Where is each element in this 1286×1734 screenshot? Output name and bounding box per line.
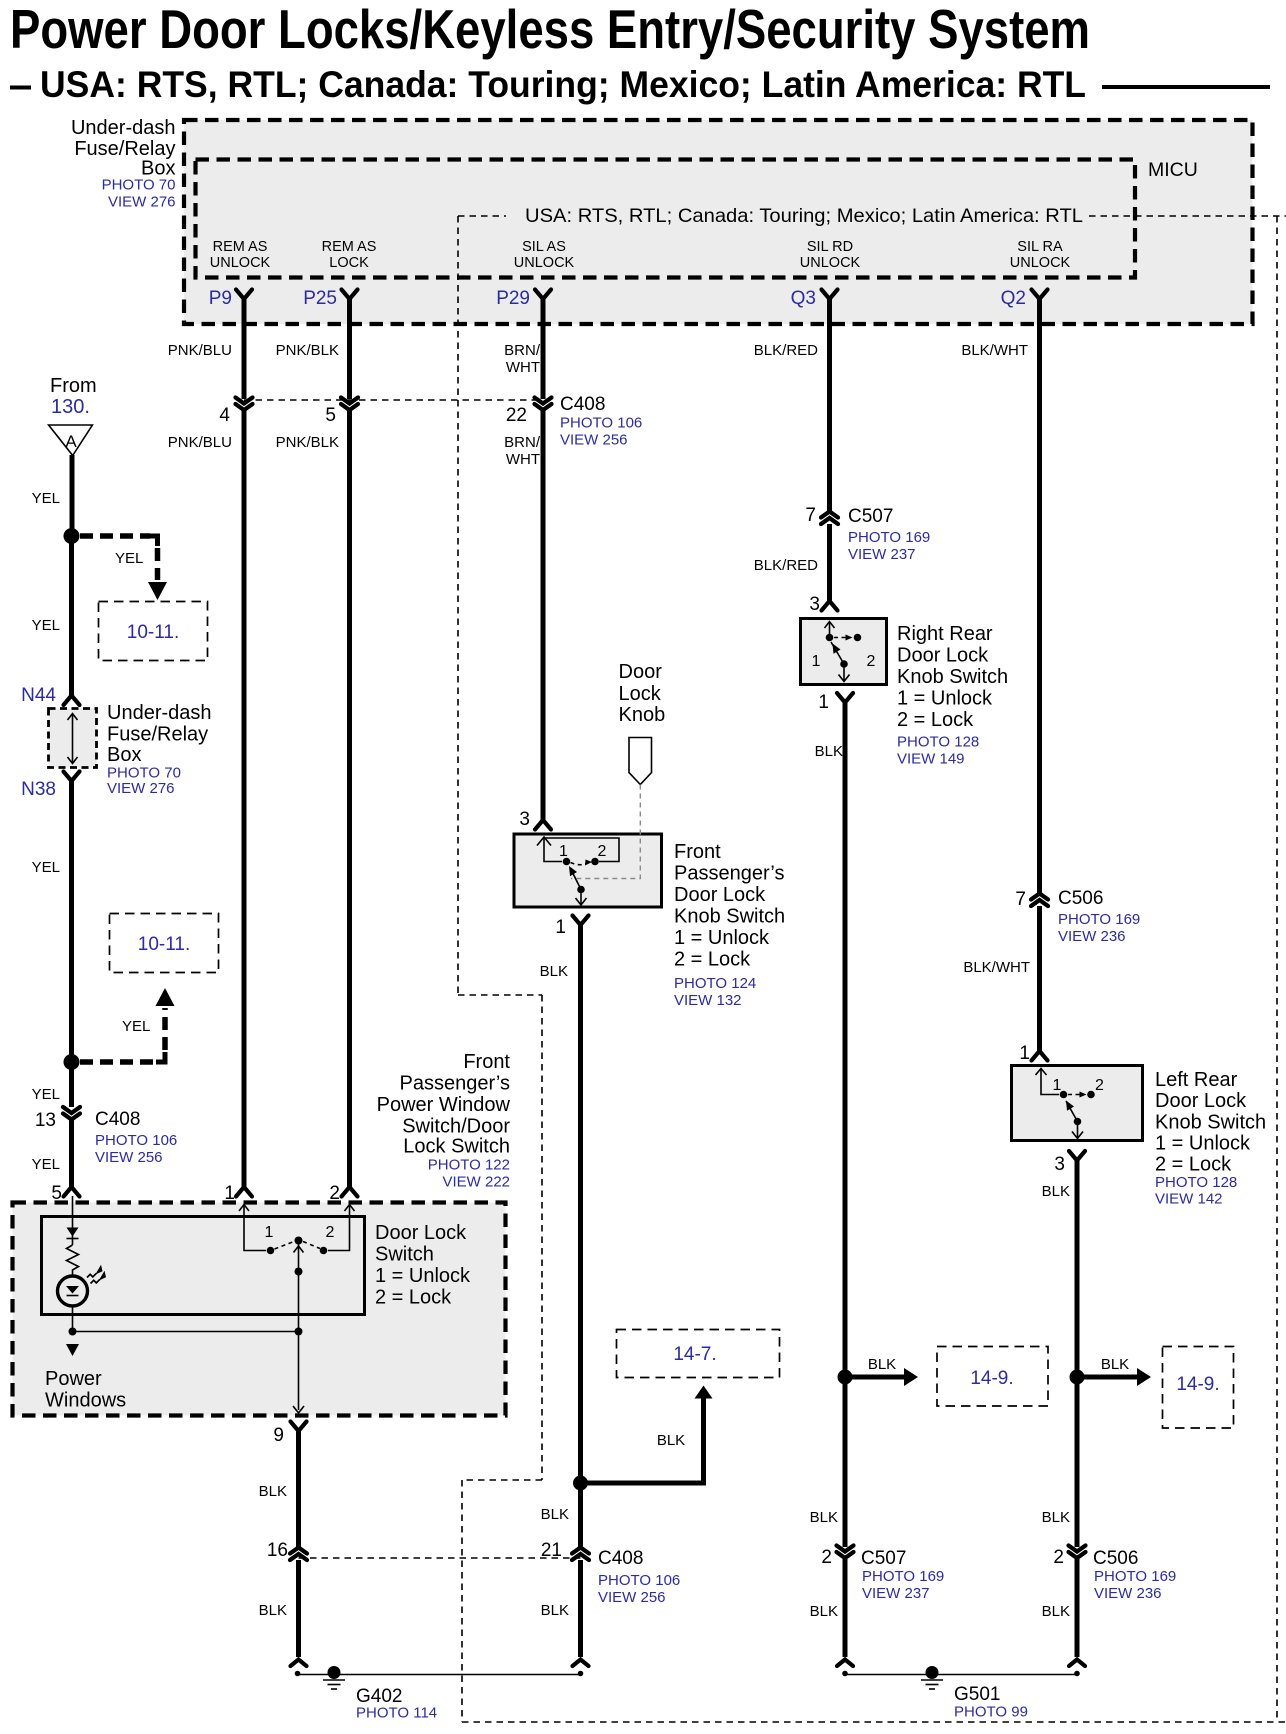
svg-text:C506: C506 [1093, 1548, 1138, 1569]
bus wire to switch common [73, 1331, 299, 1333]
svg-text:Left Rear: Left Rear [1155, 1069, 1238, 1091]
svg-text:YEL: YEL [32, 859, 60, 876]
svg-text:Passenger’s: Passenger’s [674, 863, 784, 885]
svg-text:VIEW 142: VIEW 142 [1155, 1191, 1223, 1208]
connector C408 label [560, 394, 642, 449]
ref box 14-9 (2) [1163, 1347, 1234, 1429]
svg-text:Knob Switch: Knob Switch [897, 666, 1008, 688]
svg-text:SIL RA: SIL RA [1017, 239, 1063, 255]
svg-text:BLK: BLK [657, 1432, 685, 1449]
wire to 14-9 ref 2 [1077, 1375, 1137, 1380]
pin name REM AS LOCK [322, 239, 377, 271]
G402 label [356, 1686, 437, 1722]
arrow to 14-9 ref 2 [1137, 1368, 1151, 1386]
connector C507 pin 2 [821, 1546, 853, 1569]
front passenger door lock knob switch box [514, 834, 662, 907]
svg-text:4: 4 [219, 405, 230, 426]
subtitle [10, 64, 1270, 105]
junction dot switch common [295, 1328, 303, 1336]
door lock knob label [619, 661, 666, 726]
door lock switch contact 1 lead [239, 1204, 266, 1251]
svg-text:BRN/: BRN/ [504, 434, 541, 451]
svg-text:C507: C507 [861, 1548, 906, 1569]
svg-text:2: 2 [1095, 1077, 1104, 1094]
svg-text:LOCK: LOCK [329, 255, 369, 271]
ref box 14-9 (1) [937, 1347, 1048, 1407]
wire BLK C408 16 to G402 [296, 1560, 301, 1657]
junction YEL branch 2 [64, 1054, 80, 1070]
svg-text:VIEW 276: VIEW 276 [108, 194, 176, 211]
door lock switch label [375, 1222, 471, 1309]
svg-text:BLK: BLK [540, 963, 568, 980]
svg-text:UNLOCK: UNLOCK [210, 255, 271, 271]
fuse box label [107, 702, 212, 797]
svg-text:Windows: Windows [45, 1390, 126, 1412]
svg-text:PNK/BLK: PNK/BLK [276, 342, 339, 359]
wire BLK left rear to C506 2 [1075, 1377, 1080, 1547]
source triangle A [49, 425, 93, 456]
G501 wire end fork 2 [1069, 1660, 1085, 1667]
svg-text:BLK/RED: BLK/RED [754, 557, 818, 574]
G501 wire end fork 1 [837, 1660, 853, 1667]
svg-text:Right Rear: Right Rear [897, 623, 993, 645]
G402 wire end dot 2 [578, 1671, 584, 1677]
svg-text:VIEW 237: VIEW 237 [848, 546, 916, 563]
connector C506 pin 2 [1053, 1546, 1085, 1569]
connector C507 pin 7 [805, 505, 838, 526]
svg-text:PNK/BLU: PNK/BLU [168, 342, 232, 359]
svg-text:BLK: BLK [1042, 1509, 1070, 1526]
svg-text:1 = Unlock: 1 = Unlock [375, 1265, 471, 1287]
power windows label [45, 1368, 126, 1412]
power windows feed arrow [66, 1344, 79, 1356]
svg-text:VIEW 256: VIEW 256 [560, 432, 628, 449]
wire BLK right rear to C507 2 [843, 1377, 848, 1547]
wire C507 2 to G501 [843, 1558, 848, 1657]
svg-text:Q3: Q3 [791, 288, 816, 309]
switch common to pin 9 [293, 1272, 304, 1414]
wire Q3 lower (BLK/RED) [827, 524, 832, 602]
svg-text:Front: Front [674, 841, 721, 863]
connector C506 pin2 label [1093, 1548, 1176, 1602]
front passenger pin 3 fork [535, 820, 551, 830]
svg-text:BLK: BLK [815, 743, 843, 760]
svg-text:PHOTO 128: PHOTO 128 [1155, 1174, 1237, 1191]
power window / door lock switch assembly box [13, 1203, 506, 1416]
connector C408 pin 4 [219, 398, 252, 427]
wire BLK C408 21 to G402 [578, 1560, 583, 1657]
svg-text:Lock Switch: Lock Switch [403, 1136, 510, 1158]
svg-text:21: 21 [541, 1540, 562, 1561]
svg-text:UNLOCK: UNLOCK [514, 255, 575, 271]
ref box 10-11 (1) [99, 602, 208, 661]
svg-text:PHOTO 122: PHOTO 122 [428, 1157, 510, 1174]
pin P25 fork [342, 290, 358, 300]
svg-text:VIEW 222: VIEW 222 [442, 1174, 510, 1191]
left rear pin 3 fork [1069, 1151, 1085, 1161]
pin name SIL RD UNLOCK [800, 239, 861, 271]
svg-text:P25: P25 [303, 288, 337, 309]
under-dash fuse/relay box (outer) [184, 120, 1253, 324]
G402 ground symbol [323, 1666, 345, 1689]
svg-text:14-9.: 14-9. [1176, 1374, 1219, 1395]
svg-text:Door: Door [619, 661, 663, 683]
svg-text:2: 2 [1053, 1547, 1064, 1568]
wire BLK pin9 to C408 16 [296, 1430, 301, 1548]
G402 wire end dot [295, 1671, 301, 1677]
svg-text:1 = Unlock: 1 = Unlock [897, 688, 993, 710]
switch pin 2 fork [342, 1187, 358, 1197]
wire Q3 upper (BLK/RED) [827, 298, 832, 511]
pin P29 fork [535, 290, 551, 300]
svg-text:YEL: YEL [32, 1086, 60, 1103]
junction YEL branch 1 [64, 528, 80, 544]
pin Q3 fork [822, 290, 838, 300]
svg-text:PHOTO 106: PHOTO 106 [598, 1572, 680, 1589]
svg-text:N44: N44 [21, 685, 56, 706]
svg-text:P9: P9 [209, 288, 232, 309]
door lock knob linkage (dashed) [571, 785, 640, 879]
junction 14-9 branch 2 [1070, 1370, 1085, 1385]
door lock switch contact 2 lead [328, 1204, 355, 1251]
svg-text:VIEW 237: VIEW 237 [862, 1585, 930, 1602]
svg-text:Box: Box [107, 744, 141, 766]
svg-text:VIEW 236: VIEW 236 [1058, 928, 1126, 945]
wire P29 upper (BRN/WHT) [541, 298, 546, 399]
svg-text:SIL AS: SIL AS [522, 239, 566, 255]
switch pin 1 fork [236, 1187, 252, 1197]
svg-text:C506: C506 [1058, 888, 1103, 909]
svg-text:BLK: BLK [810, 1603, 838, 1620]
svg-text:1: 1 [265, 1224, 274, 1241]
svg-text:Door Lock: Door Lock [674, 884, 766, 906]
svg-text:2 = Lock: 2 = Lock [375, 1287, 452, 1309]
svg-text:PNK/BLK: PNK/BLK [276, 434, 339, 451]
wire P9 lower (PNK/BLU) [242, 410, 247, 1188]
G402 wire end fork 2 [573, 1660, 589, 1667]
connector C408 pin 22 [506, 398, 552, 427]
svg-text:C408: C408 [560, 394, 605, 415]
svg-text:USA: RTS, RTL; Canada: Touring: USA: RTS, RTL; Canada: Touring; Mexico; … [40, 64, 1086, 105]
svg-text:PHOTO 99: PHOTO 99 [954, 1704, 1028, 1721]
pin name SIL RA UNLOCK [1010, 239, 1071, 271]
svg-text:MICU: MICU [1148, 159, 1198, 181]
svg-text:1 = Unlock: 1 = Unlock [1155, 1133, 1251, 1155]
svg-text:PHOTO 169: PHOTO 169 [1058, 911, 1140, 928]
G402 ground rail [298, 1674, 581, 1676]
wire left rear to G501 (BLK) [1075, 1160, 1080, 1377]
dashed YEL branch wire 2 [80, 1059, 156, 1065]
junction 14-9 branch 1 [838, 1370, 853, 1385]
svg-text:Knob Switch: Knob Switch [1155, 1112, 1266, 1134]
svg-text:N38: N38 [21, 779, 56, 800]
wire YEL to N44 [69, 536, 74, 696]
pin N44 fork [64, 696, 80, 706]
connector C408 pin 16 [267, 1540, 307, 1561]
junction 14-7 branch [573, 1476, 588, 1491]
svg-text:VIEW 276: VIEW 276 [107, 780, 175, 797]
arrow to 14-9 ref 1 [904, 1368, 918, 1386]
wire Q2 upper (BLK/WHT) [1037, 298, 1042, 893]
svg-text:PHOTO 70: PHOTO 70 [102, 177, 176, 194]
connector C507 pin2 label [861, 1548, 944, 1602]
svg-text:Door Lock: Door Lock [375, 1222, 467, 1244]
wire YEL to switch pin 5 [69, 1119, 74, 1188]
door lock switch contacts [265, 1224, 335, 1254]
svg-text:Knob Switch: Knob Switch [674, 906, 785, 928]
connector C408 pin 21 [541, 1540, 589, 1561]
pin Q2 fork [1032, 290, 1048, 300]
under-dash fuse/relay box (fuse) [49, 709, 97, 768]
svg-text:2: 2 [867, 653, 876, 670]
right rear pin 1 fork [837, 693, 853, 703]
svg-text:VIEW 149: VIEW 149 [897, 751, 965, 768]
svg-text:YEL: YEL [122, 1018, 150, 1035]
svg-text:PHOTO 128: PHOTO 128 [897, 734, 979, 751]
svg-text:BLK: BLK [1042, 1603, 1070, 1620]
svg-text:PHOTO 169: PHOTO 169 [1094, 1568, 1176, 1585]
wire P29 lower (BRN/WHT) [541, 410, 546, 821]
pin name SIL AS UNLOCK [514, 239, 575, 271]
svg-text:WHT: WHT [506, 359, 540, 376]
svg-text:From: From [50, 375, 97, 397]
svg-text:BLK: BLK [259, 1602, 287, 1619]
wire YEL to junction 2 [69, 780, 74, 1060]
svg-text:G501: G501 [954, 1684, 1000, 1705]
svg-text:1: 1 [1019, 1043, 1030, 1064]
G501 wire end dot 1 [842, 1671, 848, 1677]
connector C408 pin 5 [325, 398, 358, 427]
svg-text:Passenger’s: Passenger’s [400, 1073, 510, 1095]
svg-text:Door Lock: Door Lock [1155, 1090, 1247, 1112]
wire BLK to C408 21 [578, 1483, 583, 1548]
switch pin 5 fork [64, 1187, 80, 1197]
door lock switch inner box [42, 1217, 365, 1315]
svg-text:2 = Lock: 2 = Lock [897, 709, 974, 731]
wire C506 2 to G501 [1075, 1558, 1080, 1657]
svg-text:YEL: YEL [115, 550, 143, 567]
svg-text:5: 5 [325, 405, 336, 426]
svg-text:A: A [65, 432, 77, 451]
svg-text:PHOTO 106: PHOTO 106 [560, 415, 642, 432]
door lock knob symbol [629, 738, 652, 785]
svg-text:YEL: YEL [32, 617, 60, 634]
G501 ground rail [845, 1674, 1077, 1676]
MICU box [196, 160, 1136, 278]
svg-text:WHT: WHT [506, 451, 540, 468]
G501 ground symbol [921, 1666, 943, 1689]
svg-text:PHOTO 70: PHOTO 70 [107, 765, 181, 782]
C408 16-21 interconnect dashed line [299, 1557, 581, 1559]
svg-text:UNLOCK: UNLOCK [1010, 255, 1071, 271]
LED to bus wire [72, 1306, 74, 1332]
svg-text:1: 1 [1053, 1077, 1062, 1094]
svg-text:UNLOCK: UNLOCK [800, 255, 861, 271]
svg-text:3: 3 [809, 594, 820, 615]
G501 wire end dot 2 [1074, 1671, 1080, 1677]
left rear door lock knob switch box [1012, 1066, 1143, 1141]
svg-text:REM AS: REM AS [322, 239, 377, 255]
dimmer resistor feed arrow [67, 1196, 79, 1245]
pin name REM AS UNLOCK [210, 239, 271, 271]
arrow to 10-11 ref 2 [156, 988, 175, 1006]
arrow to 10-11 ref 1 [148, 582, 167, 600]
left rear pin 1 fork [1032, 1051, 1048, 1061]
svg-text:VIEW 236: VIEW 236 [1094, 1585, 1162, 1602]
svg-text:7: 7 [1015, 889, 1026, 910]
switch pin 9 fork [291, 1422, 307, 1432]
svg-text:VIEW 256: VIEW 256 [95, 1149, 163, 1166]
svg-text:PHOTO 169: PHOTO 169 [848, 529, 930, 546]
ref box 14-7 [617, 1330, 780, 1378]
connector C506 label [1058, 888, 1140, 945]
arrow to 14-7 ref [695, 1386, 713, 1399]
svg-text:BLK: BLK [1042, 1183, 1070, 1200]
svg-text:9: 9 [273, 1425, 284, 1446]
svg-text:PHOTO 124: PHOTO 124 [674, 975, 756, 992]
svg-text:2: 2 [821, 1547, 832, 1568]
wire P9 upper (PNK/BLU) [242, 298, 247, 399]
svg-text:1 = Unlock: 1 = Unlock [674, 927, 770, 949]
svg-text:Front: Front [463, 1051, 510, 1073]
front passenger pin 1 fork [573, 916, 589, 926]
svg-text:BLK/WHT: BLK/WHT [961, 342, 1028, 359]
svg-text:Power: Power [45, 1368, 102, 1390]
illumination LED [58, 1265, 107, 1306]
svg-text:16: 16 [267, 1540, 288, 1561]
wire YEL to C408 pin 13 [69, 1062, 74, 1107]
svg-text:BRN/: BRN/ [504, 342, 541, 359]
svg-text:P29: P29 [496, 288, 530, 309]
connector C506 pin 7 [1015, 889, 1048, 910]
svg-text:Under-dash: Under-dash [71, 117, 176, 139]
svg-text:14-9.: 14-9. [970, 1368, 1013, 1389]
C408 interconnect dashed line [244, 399, 543, 401]
svg-text:YEL: YEL [32, 490, 60, 507]
svg-text:10-11.: 10-11. [138, 934, 190, 955]
svg-text:1: 1 [555, 917, 566, 938]
label BRN/WHT 2 [504, 434, 541, 468]
svg-text:7: 7 [805, 505, 816, 526]
svg-text:Switch: Switch [375, 1244, 434, 1266]
svg-text:BLK: BLK [868, 1356, 896, 1373]
svg-text:2 = Lock: 2 = Lock [674, 949, 751, 971]
svg-text:SIL RD: SIL RD [807, 239, 853, 255]
right rear pin 3 fork [822, 601, 838, 611]
svg-text:BLK: BLK [541, 1506, 569, 1523]
svg-text:VIEW 132: VIEW 132 [674, 992, 742, 1009]
svg-text:PHOTO 169: PHOTO 169 [862, 1568, 944, 1585]
front passenger door lock knob switch label [674, 841, 785, 1009]
pin N38 fork [64, 772, 80, 782]
right rear door lock knob switch box [801, 619, 887, 685]
dashed YEL branch wire 1 [80, 533, 150, 539]
G402 wire end fork [291, 1660, 307, 1667]
svg-text:BLK/RED: BLK/RED [754, 342, 818, 359]
svg-text:13: 13 [35, 1110, 56, 1131]
svg-text:2: 2 [598, 843, 607, 860]
svg-text:22: 22 [506, 405, 527, 426]
svg-text:C408: C408 [598, 1548, 643, 1569]
svg-text:3: 3 [1054, 1154, 1065, 1175]
wire to 14-9 ref 1 [845, 1375, 904, 1380]
svg-text:Power Window: Power Window [377, 1094, 511, 1116]
svg-text:BLK: BLK [810, 1509, 838, 1526]
svg-text:USA: RTS, RTL; Canada: Touring: USA: RTS, RTL; Canada: Touring; Mexico; … [525, 205, 1083, 227]
svg-text:Door Lock: Door Lock [897, 645, 989, 667]
connector C408 pin21 label [598, 1548, 680, 1606]
door lock switch lever [275, 1237, 321, 1276]
label BRN/WHT [504, 342, 541, 376]
svg-text:Fuse/Relay: Fuse/Relay [107, 724, 208, 746]
svg-text:Switch/Door: Switch/Door [402, 1116, 510, 1138]
svg-text:BLK: BLK [1101, 1356, 1129, 1373]
From 130 source [50, 375, 97, 418]
left rear door lock knob switch label [1155, 1069, 1266, 1208]
svg-text:PNK/BLU: PNK/BLU [168, 434, 232, 451]
svg-text:Knob: Knob [619, 704, 666, 726]
svg-text:1: 1 [818, 692, 829, 713]
wire P25 upper (PNK/BLK) [347, 298, 352, 399]
wire YEL from triangle [70, 455, 75, 533]
svg-text:C507: C507 [848, 506, 893, 527]
front passenger power window switch label [377, 1051, 511, 1191]
wire to 14-7 ref [581, 1398, 704, 1483]
svg-text:VIEW 256: VIEW 256 [598, 1589, 666, 1606]
svg-text:C408: C408 [95, 1109, 140, 1130]
wire front passenger to G402 (BLK) [578, 924, 583, 1483]
svg-text:3: 3 [519, 809, 530, 830]
svg-text:2: 2 [326, 1224, 335, 1241]
svg-text:PHOTO 114: PHOTO 114 [356, 1705, 437, 1722]
svg-text:2 = Lock: 2 = Lock [1155, 1154, 1232, 1176]
connector C408 pin13 label [95, 1109, 177, 1166]
svg-text:130.: 130. [51, 396, 90, 418]
option region boundary (dashed) [458, 216, 1286, 1722]
svg-text:BLK/WHT: BLK/WHT [963, 959, 1030, 976]
svg-text:Q2: Q2 [1001, 288, 1026, 309]
pin P9 fork [236, 290, 252, 300]
illumination resistor [67, 1245, 79, 1276]
under-dash fuse/relay box label [71, 117, 176, 211]
G501 label [954, 1684, 1028, 1721]
wire Q2 lower (BLK/WHT) [1037, 906, 1042, 1052]
svg-text:YEL: YEL [32, 1156, 60, 1173]
svg-text:1: 1 [559, 843, 568, 860]
connector C507 label [848, 506, 930, 563]
wire P25 lower (PNK/BLK) [347, 410, 352, 1188]
connector C408 pin 13 [35, 1107, 80, 1131]
svg-text:1: 1 [812, 653, 821, 670]
right rear door lock knob switch label [897, 623, 1008, 768]
svg-text:BLK: BLK [259, 1483, 287, 1500]
svg-text:Under-dash: Under-dash [107, 702, 212, 724]
svg-text:PHOTO 106: PHOTO 106 [95, 1132, 177, 1149]
svg-text:Lock: Lock [619, 683, 662, 705]
svg-text:14-7.: 14-7. [673, 1344, 716, 1365]
svg-text:10-11.: 10-11. [127, 622, 179, 643]
svg-text:Power Door Locks/Keyless Entry: Power Door Locks/Keyless Entry/Security … [10, 0, 1090, 60]
wire right rear to G501 (BLK) [843, 702, 848, 1377]
svg-text:BLK: BLK [541, 1602, 569, 1619]
svg-text:REM AS: REM AS [213, 239, 268, 255]
junction dot LED bus [69, 1328, 77, 1336]
ref box 10-11 (2) [110, 914, 219, 973]
